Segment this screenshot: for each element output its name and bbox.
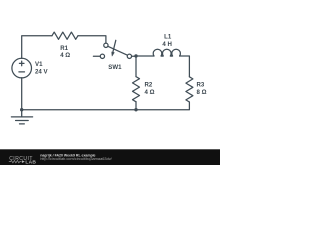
wire: R2 bottom to rail	[135, 102, 137, 110]
svg-text:R3: R3	[197, 81, 205, 88]
inductor L1	[153, 49, 180, 56]
wire: top-left from V1 top up and right to R1	[22, 36, 52, 59]
svg-text:R1: R1	[60, 45, 68, 52]
svg-text:24 V: 24 V	[35, 69, 48, 76]
wire: inductor to R3 top	[180, 56, 190, 77]
CircuitLab logo: resistor squiggle	[9, 160, 22, 162]
V1 plus sign	[19, 61, 24, 66]
V1 minus sign	[19, 71, 25, 73]
svg-text:http://circuitlab.com/circuit/: http://circuitlab.com/circuit/bq3amaa63d…	[40, 156, 112, 161]
switch SW1 unconnected throw stub (left)	[93, 55, 100, 57]
resistor R2	[133, 77, 140, 102]
wire: R3 bottom to rail	[22, 102, 190, 110]
wire: switch to node A	[132, 55, 136, 57]
wire: V1 bottom to ground junction	[21, 78, 23, 110]
svg-text:4 H: 4 H	[162, 41, 171, 48]
ground	[11, 110, 32, 124]
bottom rail junction dot	[134, 108, 137, 111]
switch SW1 throw terminal (right, closed)	[127, 54, 131, 58]
node A junction dot	[134, 54, 137, 57]
svg-text:LAB: LAB	[25, 159, 36, 165]
wire: node A to inductor	[136, 55, 154, 57]
CircuitLab logo: arrow	[22, 160, 25, 163]
svg-text:R2: R2	[145, 81, 153, 88]
wire: node A down to R2	[135, 56, 137, 77]
ground junction dot	[20, 108, 23, 111]
svg-text:4 Ω: 4 Ω	[145, 89, 155, 96]
wire: R1 to switch common	[78, 36, 106, 44]
switch SW1 blade	[108, 46, 128, 55]
svg-text:8 Ω: 8 Ω	[197, 89, 207, 96]
voltage source V1	[12, 58, 32, 78]
switch SW1 actuator arrow	[113, 40, 116, 52]
footer bar	[0, 149, 220, 165]
svg-text:L1: L1	[164, 34, 172, 41]
switch SW1 common terminal	[104, 43, 108, 47]
svg-text:SW1: SW1	[108, 64, 122, 71]
svg-text:V1: V1	[35, 61, 43, 68]
svg-text:4 Ω: 4 Ω	[60, 52, 70, 59]
switch SW1 unconnected throw terminal	[100, 54, 104, 58]
resistor R1	[52, 32, 78, 39]
resistor R3	[186, 77, 193, 102]
